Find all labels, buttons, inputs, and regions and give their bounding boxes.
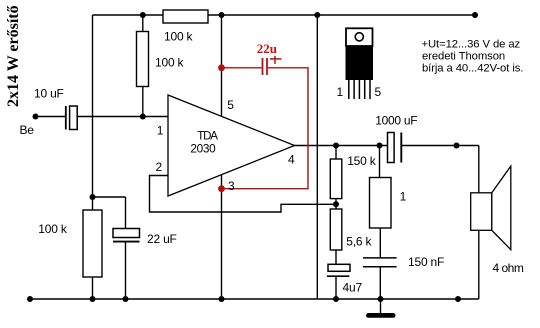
capacitor 10uF plate line	[65, 106, 67, 130]
wire 5,6k to 4u7 lead	[335, 250, 337, 264]
wire 22uF bottom lead	[125, 243, 127, 300]
svg-text:1: 1	[337, 85, 344, 99]
node output right junction	[454, 143, 460, 149]
wire pin 3 ground drop	[221, 174, 223, 299]
wire pin 2 feedback path	[150, 176, 337, 213]
wire red 22u right and return path	[222, 68, 309, 189]
wire left vertical drop	[92, 15, 94, 197]
node red junction pin5 side	[218, 64, 225, 71]
wire top rail	[93, 14, 476, 16]
wire bias resistor bottom lead	[142, 87, 144, 117]
node Be input terminal	[33, 114, 39, 120]
node red junction pin3 side	[218, 185, 225, 192]
node bottom rail 22uF junction	[123, 296, 129, 302]
node feedback junction	[333, 201, 339, 207]
node output 1000uF junction	[377, 143, 383, 149]
resistor 5,6k	[330, 209, 342, 250]
svg-text:100 k: 100 k	[164, 30, 194, 44]
wire input left segment	[36, 116, 66, 118]
svg-text:3: 3	[228, 179, 235, 193]
svg-text:2x14 W erősítő: 2x14 W erősítő	[5, 5, 22, 107]
svg-text:22 uF: 22 uF	[147, 232, 177, 246]
node bottom rail 100k junction	[90, 296, 96, 302]
resistor 100k horizontal top	[163, 10, 208, 23]
svg-text:+Ut=12...36 V de az: +Ut=12...36 V de az	[422, 39, 521, 51]
svg-text:100 k: 100 k	[155, 56, 185, 70]
capacitor 1000uF plate line	[400, 133, 402, 163]
capacitor 22uF plate box	[113, 229, 140, 238]
resistor 1 ohm	[370, 178, 392, 229]
capacitor 4u7 plate line	[327, 275, 349, 277]
svg-text:eredeti Thomson: eredeti Thomson	[422, 51, 505, 63]
svg-text:22u: 22u	[257, 41, 277, 56]
node bottom rail left terminal	[27, 296, 33, 302]
capacitor 150nF bottom plate	[363, 266, 397, 268]
svg-text:2030: 2030	[190, 141, 216, 155]
svg-text:150 nF: 150 nF	[408, 255, 444, 269]
capacitor 1000uF plate box	[388, 133, 395, 163]
svg-text:1: 1	[157, 124, 164, 138]
svg-text:5: 5	[375, 85, 382, 99]
wire bias resistor top lead	[142, 15, 144, 32]
node top rail pin5 junction	[219, 12, 225, 18]
svg-text:Be: Be	[20, 123, 35, 137]
wire 22uF branch horizontal	[93, 196, 126, 198]
wire 150k top lead	[335, 146, 337, 160]
node bottom rail speaker junction	[455, 296, 461, 302]
wire red 22u left segment	[222, 67, 262, 69]
ground symbol	[366, 313, 396, 318]
wire 150k to 5,6k junction	[335, 199, 337, 209]
svg-text:4u7: 4u7	[343, 281, 363, 295]
capacitor 22u red left plate	[262, 58, 264, 75]
node bottom rail pin3 junction	[219, 296, 225, 302]
wire speaker top lead	[478, 146, 480, 193]
IC TO-220 package tab	[346, 28, 373, 46]
speaker LS1 cone	[492, 166, 511, 250]
IC TO-220 pins	[348, 80, 350, 99]
svg-text:10 uF: 10 uF	[34, 87, 64, 101]
capacitor 22uF plate line	[113, 241, 140, 243]
wire output left segment	[294, 145, 388, 147]
svg-text:100 k: 100 k	[38, 222, 68, 236]
polarity plus sign	[270, 58, 282, 60]
svg-text:5: 5	[227, 98, 234, 112]
svg-text:2: 2	[156, 160, 163, 174]
node bottom rail ground junction	[378, 296, 384, 302]
wire 150nF bottom lead	[379, 268, 381, 300]
node output 150k junction	[333, 143, 339, 149]
svg-text:4 ohm: 4 ohm	[493, 261, 524, 275]
wire 22uF top lead	[125, 197, 127, 229]
wire 4u7 bottom lead	[335, 276, 337, 299]
wire 100k bottom resistor bottom lead	[92, 277, 94, 299]
svg-text:1000 uF: 1000 uF	[375, 114, 417, 128]
wire output right segment	[402, 145, 479, 147]
resistor 100k vertical bias	[137, 32, 149, 87]
capacitor 4u7 plate box	[328, 264, 350, 271]
wire speaker bottom lead	[478, 230, 480, 299]
wire bottom rail	[30, 298, 479, 300]
capacitor 10uF plate box	[70, 106, 78, 130]
node top rail bias junction	[140, 12, 146, 18]
wire pin 5 supply drop	[221, 15, 223, 116]
capacitor 22u red right plate	[266, 58, 268, 75]
wire 1 ohm top lead	[379, 146, 381, 178]
svg-text:150 k: 150 k	[347, 154, 377, 168]
svg-text:1: 1	[400, 190, 407, 204]
node top rail right terminal	[472, 12, 478, 18]
svg-text:5,6 k: 5,6 k	[346, 235, 372, 249]
node input bias junction	[140, 114, 146, 120]
node 100k 22uF junction	[90, 194, 96, 200]
wire vertical rail x317	[316, 15, 318, 299]
resistor 150k	[330, 159, 342, 199]
node bottom rail 4u7 junction	[333, 296, 339, 302]
wire ground lead	[380, 299, 382, 313]
node top rail x317 junction	[314, 12, 320, 18]
svg-text:bírja a 40...42V-ot is.: bírja a 40...42V-ot is.	[422, 63, 523, 75]
wire 100k bottom resistor top lead	[92, 197, 94, 210]
resistor 100k bottom left	[83, 210, 102, 277]
IC TO-220 mounting hole	[355, 33, 363, 41]
svg-text:4: 4	[288, 153, 295, 167]
IC TO-220 body	[346, 46, 374, 80]
capacitor 150nF top plate	[363, 257, 397, 259]
wire input right segment to pin 1	[77, 116, 168, 118]
wire 1 ohm to 150nF lead	[379, 228, 381, 257]
op-amp U1 TDA2030 triangle	[168, 95, 295, 196]
speaker LS1 frame	[471, 193, 492, 231]
